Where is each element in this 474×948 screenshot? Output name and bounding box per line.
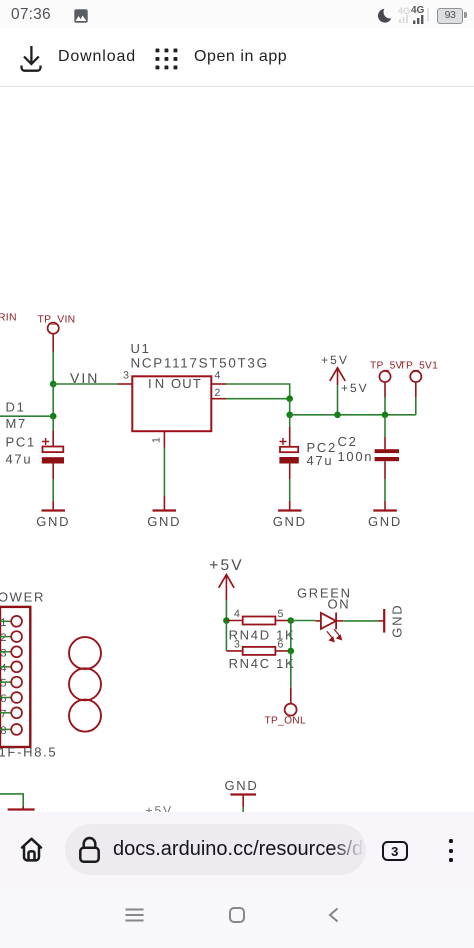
- wire C2 to GND (green): [384, 479, 386, 501]
- svg-text:NCP1117ST50T3G: NCP1117ST50T3G: [131, 356, 269, 371]
- test point TP_VIN pad: [48, 323, 59, 334]
- wire bus to PC2 (green): [289, 415, 291, 427]
- ground pin PC1 (red): [52, 501, 54, 511]
- resistor RN4C right stub (red): [275, 650, 290, 652]
- svg-text:GND: GND: [273, 514, 307, 529]
- wire bottom left L (green): [0, 794, 23, 806]
- connector pin 1: [0, 616, 22, 629]
- mounting hole pad 2: [69, 668, 101, 700]
- capacitor PC2 top plate: [280, 447, 298, 452]
- wire U1 pin4 to +5V node (green): [226, 384, 290, 399]
- svg-text:3: 3: [123, 369, 129, 381]
- wire +5V stem to bus (green): [337, 385, 339, 415]
- LED cathode stub (red): [336, 620, 343, 622]
- test point TP_5V1 pin (red): [415, 382, 417, 398]
- svg-text:4: 4: [234, 608, 240, 620]
- wire PC2 to GND (green): [289, 479, 291, 501]
- wire C2 top pin (red): [384, 437, 386, 449]
- svg-text:8: 8: [0, 725, 6, 737]
- svg-text:TP_5V1: TP_5V1: [400, 361, 439, 372]
- ground GND symbol (C2): [373, 509, 397, 511]
- LED ON triangle: [321, 613, 336, 629]
- ground GND symbol (bottom center, inverted): [230, 793, 256, 795]
- svg-text:4: 4: [0, 662, 6, 674]
- svg-text:1: 1: [151, 437, 163, 443]
- wire +5V bus (green): [290, 414, 416, 416]
- svg-text:M7: M7: [6, 416, 27, 431]
- junction +5V stem on bus: [334, 412, 341, 419]
- ground GND symbol (U1): [153, 509, 177, 511]
- svg-text:D1: D1: [6, 400, 26, 415]
- svg-text:1F-H8.5: 1F-H8.5: [0, 745, 57, 760]
- wire node to TP_ONL (green): [290, 651, 292, 687]
- wire D1 node to PC1 (green): [52, 416, 54, 430]
- wire LED to GND (green): [343, 620, 378, 622]
- svg-text:47u: 47u: [307, 453, 334, 468]
- wire D1 net from left edge (green): [0, 415, 53, 417]
- wire PC2 top pin (red): [289, 427, 291, 447]
- test point TP_ONL pin (red): [290, 687, 292, 703]
- wire PC1 bottom pin (red): [52, 464, 54, 480]
- svg-text:3: 3: [0, 647, 6, 659]
- wire TP_VIN pin (red): [52, 334, 54, 352]
- LED anode stub (red): [315, 620, 321, 622]
- power symbol +5V stem (red, LED section): [225, 575, 227, 600]
- capacitor PC1 top plate: [43, 447, 64, 453]
- pin 1 stub (red): [163, 431, 165, 447]
- wire TP_5V1 to bus (green): [415, 398, 417, 415]
- junction VIN node: [50, 381, 57, 388]
- capacitor PC2 plus sign: [280, 438, 287, 445]
- ground GND symbol (bottom left): [8, 808, 35, 810]
- capacitor PC2 bottom plate: [279, 457, 298, 464]
- IC U1 body: [132, 376, 211, 431]
- wire TP_5V to bus (green): [384, 398, 386, 415]
- connector pin 7: [0, 707, 22, 720]
- svg-text:RIN: RIN: [0, 313, 17, 324]
- ground pin bottom left (red): [22, 806, 24, 810]
- connector pin 3: [0, 646, 22, 659]
- connector pin 2: [0, 631, 22, 644]
- ground pin PC2 (red): [289, 501, 291, 511]
- wire PC1 top pin (red): [52, 431, 54, 447]
- LED cathode bar: [335, 613, 337, 630]
- LED emission arrow 2: [334, 629, 341, 639]
- svg-text:6: 6: [278, 638, 284, 650]
- svg-text:2: 2: [215, 387, 221, 399]
- svg-text:GND: GND: [368, 514, 402, 529]
- test point TP_5V pad: [379, 371, 390, 382]
- ground GND symbol (LED, rotated): [383, 609, 385, 633]
- power symbol +5V stem (red): [337, 368, 339, 385]
- resistor RN4D body: [243, 617, 276, 625]
- svg-text:GND: GND: [147, 514, 181, 529]
- junction TP_5V/C2 node: [382, 412, 389, 419]
- wire bottom center down (green): [242, 807, 244, 812]
- wire VIN node to U1 pin3 (green): [53, 383, 118, 385]
- power symbol +5V arrow (regulator): [330, 368, 345, 381]
- svg-text:U1: U1: [131, 341, 151, 356]
- capacitor PC1 bottom plate: [42, 457, 64, 463]
- svg-text:POWER: POWER: [0, 590, 45, 605]
- power symbol +5V arrow (LED section): [219, 575, 234, 588]
- ground GND symbol (PC1): [42, 509, 66, 511]
- capacitor PC1 plus sign: [42, 438, 49, 445]
- junction RN4D pin5 node: [288, 617, 295, 624]
- wire left link RN4D-RN4C (green): [225, 621, 227, 651]
- wire RN4D pin5 to LED (green): [291, 620, 316, 622]
- connector pin 4: [0, 661, 22, 674]
- svg-text:2: 2: [0, 632, 6, 644]
- wire U1 pin1 to GND (green): [163, 448, 165, 497]
- svg-text:GND: GND: [36, 514, 70, 529]
- wire VIN node down to D1 node (green): [52, 384, 54, 416]
- pin 2 stub (red): [211, 398, 226, 400]
- svg-text:3: 3: [234, 638, 240, 650]
- junction RN4D pin4 node: [223, 617, 230, 624]
- svg-text:GND: GND: [390, 604, 405, 638]
- svg-text:+5V: +5V: [209, 557, 244, 574]
- wire PC2 bottom pin (red): [289, 464, 291, 480]
- wire right link pin5-pin6 (green): [290, 621, 292, 651]
- connector pin 5: [0, 677, 22, 690]
- ground pin U1 (red): [163, 496, 165, 511]
- ground pin LED (red): [379, 620, 385, 622]
- junction D1 node: [50, 413, 57, 420]
- LED emission arrow 1: [327, 631, 334, 641]
- svg-text:C2: C2: [338, 434, 358, 449]
- svg-text:47u: 47u: [6, 452, 33, 467]
- svg-text:PC1: PC1: [6, 434, 36, 449]
- wire +5V to RN4D (green): [225, 600, 227, 621]
- pin 3 stub (red): [118, 383, 132, 385]
- connector pin 6: [0, 692, 22, 705]
- svg-text:ON: ON: [328, 597, 351, 612]
- connector POWER body: [0, 607, 30, 747]
- junction RN4C pin6 node: [288, 648, 295, 655]
- svg-text:IN: IN: [148, 376, 167, 391]
- svg-text:+5V: +5V: [341, 381, 369, 395]
- svg-text:5: 5: [278, 608, 284, 620]
- mounting hole pad 3: [69, 700, 101, 732]
- svg-text:4: 4: [215, 369, 221, 381]
- connector pin 8: [0, 724, 22, 737]
- wire C2 bottom pin (red): [384, 461, 386, 479]
- svg-text:TP_5V: TP_5V: [370, 361, 403, 372]
- resistor RN4D left stub (red): [226, 620, 242, 622]
- junction pin2/pin4 node: [286, 395, 293, 402]
- svg-text:6: 6: [0, 693, 6, 705]
- svg-text:OUT: OUT: [171, 376, 202, 391]
- capacitor C2 bottom plate: [375, 457, 399, 461]
- wire U1 pin2 to +5V node (green): [226, 398, 290, 400]
- ground pin C2 (red): [384, 501, 386, 511]
- capacitor C2 top plate: [375, 449, 399, 453]
- mounting hole pad 1: [69, 637, 101, 669]
- wire PC1 to GND (green): [52, 479, 54, 501]
- wire down to +5V bus (green): [289, 399, 291, 415]
- ground pin bottom center (red): [242, 795, 244, 808]
- junction +5V bus left: [286, 412, 293, 419]
- test point TP_ONL pad: [285, 704, 297, 716]
- resistor RN4C left stub (red): [226, 650, 242, 652]
- svg-text:RN4C 1K: RN4C 1K: [229, 656, 296, 671]
- svg-text:1: 1: [0, 617, 6, 629]
- pin 4 stub (red): [211, 383, 226, 385]
- svg-text:GND: GND: [225, 778, 259, 793]
- svg-text:TP_ONL: TP_ONL: [265, 716, 306, 727]
- test point TP_5V pin (red): [384, 382, 386, 398]
- test point TP_5V1 pad: [410, 371, 421, 382]
- svg-text:7: 7: [0, 708, 6, 720]
- resistor RN4C body: [243, 647, 276, 655]
- wire bus to C2 (green): [384, 415, 386, 437]
- svg-text:5: 5: [0, 678, 6, 690]
- wire TP_VIN to VIN node (green): [52, 352, 54, 385]
- resistor RN4D right stub (red): [275, 620, 290, 622]
- svg-text:+5V: +5V: [321, 353, 349, 367]
- ground GND symbol (PC2): [278, 509, 302, 511]
- svg-text:100n: 100n: [338, 449, 374, 464]
